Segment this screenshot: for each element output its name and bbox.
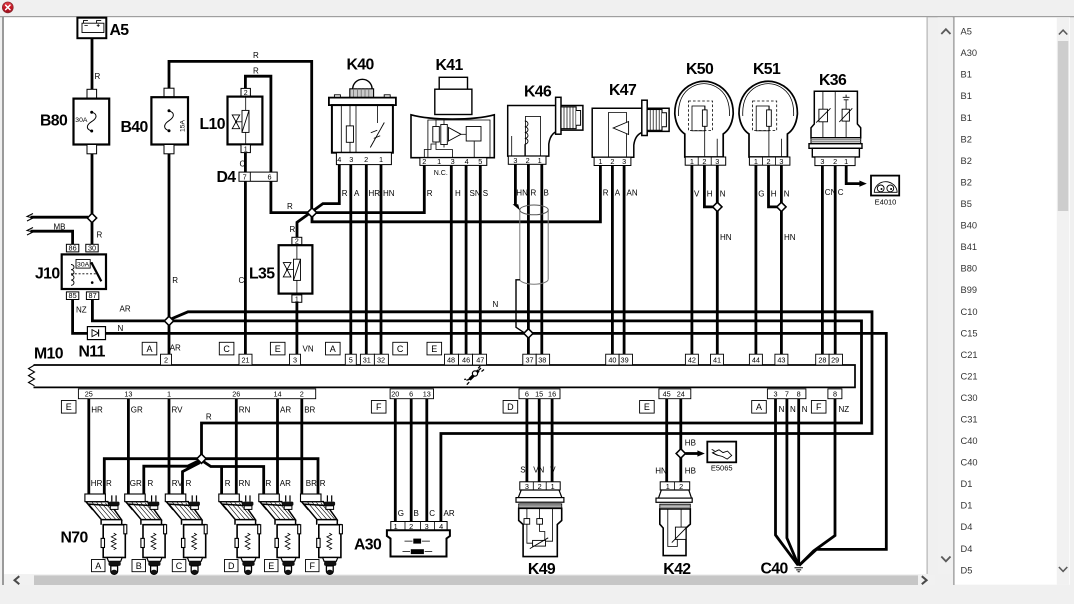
svg-text:3: 3 [293,356,297,365]
svg-text:R: R [225,479,231,488]
svg-text:D4: D4 [961,544,973,554]
wire GR : M10 E13 to injector B [127,399,130,494]
svg-text:E: E [66,402,72,412]
svg-text:B2: B2 [961,177,972,187]
svg-text:B2: B2 [961,156,972,166]
svg-text:4: 4 [465,157,469,166]
wire R : K46 pin2 to M10 pin 37 [527,165,530,355]
junction MB/R [87,213,96,222]
svg-text:48: 48 [447,356,455,365]
junction MB/R redraw [87,213,96,222]
svg-text:B: B [544,189,549,198]
wire S : M10 D6 to K49 pin3 [526,399,529,482]
svg-text:D: D [228,561,235,571]
wire A : K47 pin2 to M10 pin 40 [611,166,614,355]
wire labels above A30 [398,509,455,518]
wire CN : K36 pin3 to M10 pin 28 [821,166,824,355]
horizontal scrollbar thumb [34,575,918,585]
svg-text:2: 2 [526,156,530,165]
svg-text:B1: B1 [961,113,972,123]
svg-text:HN: HN [655,466,667,475]
svg-text:RN: RN [239,479,251,488]
main scrollbar up arrow [941,29,950,34]
svg-text:R: R [206,413,212,422]
svg-text:3: 3 [349,155,353,164]
wire R : A5 to B80 [91,39,94,90]
svg-text:D4: D4 [961,522,973,532]
svg-text:1: 1 [844,157,848,166]
svg-text:1: 1 [598,157,602,166]
svg-text:K49: K49 [528,561,556,578]
svg-text:3: 3 [820,157,824,166]
svg-text:A5: A5 [110,22,130,39]
svg-text:D1: D1 [961,501,973,511]
wire R : B80 down through MB junction to J10 pin 30 [91,154,94,245]
M10 bottom pin group boxes [78,389,842,399]
svg-text:2: 2 [702,157,706,166]
wire H : K50 pin2 to HN junction [704,165,713,207]
svg-text:15: 15 [535,390,543,399]
relay J10 [62,244,106,301]
svg-text:30A: 30A [77,262,90,269]
injector wire labels row [91,479,326,488]
svg-text:5: 5 [349,356,353,365]
svg-text:2: 2 [422,157,426,166]
svg-text:7: 7 [785,390,789,399]
junction K50 HN [713,202,722,211]
svg-text:31: 31 [363,356,371,365]
svg-text:26: 26 [232,390,240,399]
break symbol MB wire [27,214,33,222]
diagram white canvas [4,17,927,574]
svg-text:HR: HR [369,189,381,198]
svg-text:F: F [376,402,382,412]
main scrollbar down arrow [941,557,950,562]
svg-text:13: 13 [124,390,132,399]
lamp K51 [739,81,797,166]
junction diamonds top layer [87,202,786,463]
svg-text:40: 40 [608,356,616,365]
svg-text:3: 3 [513,156,517,165]
svg-text:F: F [309,561,315,571]
svg-text:87: 87 [89,291,97,300]
fuse B80 [74,89,110,154]
svg-text:N: N [493,300,499,309]
wire RN : M10 E26 to injector D [235,399,238,494]
svg-text:AN: AN [627,189,638,198]
svg-text:43: 43 [777,356,785,365]
svg-text:37: 37 [525,356,533,365]
svg-text:A: A [615,189,621,198]
wire N : M10 A3 to ground C40 [776,399,799,565]
junction K50 HN redraw [713,202,722,211]
svg-text:NZ: NZ [839,405,850,414]
svg-text:C: C [429,509,435,518]
wire MB lower to J10 pin 86 [31,231,73,244]
svg-text:RV: RV [172,406,184,415]
junction K42 HB redraw [676,449,685,458]
svg-text:HN: HN [516,189,528,198]
wire labels above K49 [520,465,556,474]
svg-text:E5065: E5065 [711,463,733,472]
injector N70 B [125,494,167,574]
svg-text:C31: C31 [961,415,978,425]
svg-text:K51: K51 [753,61,781,78]
wire R : L10 pin2 rail through D4 pin6 down to R node [245,76,308,212]
junction K51 HN [777,202,786,211]
svg-text:HN: HN [383,189,395,198]
list scrollbar track [1057,17,1070,584]
svg-text:A: A [354,189,360,198]
horizontal scrollbar right arrow [922,576,927,584]
wire AR : J10 pin87 to AR node [92,300,165,321]
wire N/HN : K51 pin3 to M10 pin 43 [780,165,783,354]
injector N70 E [259,494,301,574]
diagram panel left border [2,17,4,585]
M10 top connector letter boxes [142,342,441,355]
wire NZ : J10 pin85 to N11 [73,300,88,334]
ground point C40 [795,568,803,572]
svg-text:MB: MB [54,223,66,232]
svg-text:38: 38 [538,356,546,365]
svg-text:42: 42 [688,356,696,365]
wire G : K51 pin1 to M10 pin 44 [755,165,758,354]
svg-text:R: R [287,202,293,211]
svg-text:D5: D5 [961,565,973,575]
connector E4010 [871,176,899,196]
valve L35 [279,237,313,303]
svg-text:28: 28 [818,356,826,365]
svg-text:CN: CN [825,188,837,197]
svg-text:B: B [414,509,419,518]
wire R : node east rail to injector F [205,459,318,494]
svg-text:6: 6 [409,390,413,399]
svg-text:R: R [253,51,259,60]
svg-text:BR: BR [306,479,317,488]
svg-text:A: A [95,561,101,571]
svg-text:24: 24 [677,390,685,399]
wire C : K36 pin2 to M10 pin 29 [834,166,837,355]
wire R branch to injector D [220,467,223,495]
wire R : node to injector B [144,461,199,494]
svg-text:RV: RV [172,479,184,488]
battery A5 [77,18,106,39]
svg-text:K36: K36 [819,72,847,89]
svg-text:VN: VN [303,345,314,354]
svg-text:29: 29 [831,356,839,365]
svg-text:6: 6 [525,390,529,399]
svg-text:B40: B40 [121,119,149,136]
svg-text:HB: HB [685,466,696,475]
wire VN : M10 D15 to K49 pin2 [538,399,541,482]
arrowhead to E5065 [697,450,704,456]
svg-text:G: G [398,509,404,518]
svg-text:B5: B5 [961,199,972,209]
svg-text:R: R [148,479,154,488]
svg-text:A5: A5 [961,27,972,37]
wire C : M10 F13 to A30 pin3 [425,399,428,522]
svg-text:4: 4 [337,155,341,164]
junction AR node redraw [164,316,173,325]
wire H : K41 pin3 to M10 pin 48 [450,165,453,354]
junction R node [307,208,316,217]
svg-text:R: R [320,479,326,488]
injector letter boxes A-F [92,560,320,572]
svg-text:R: R [290,225,296,234]
svg-text:K42: K42 [663,561,691,578]
svg-text:B1: B1 [961,70,972,80]
svg-text:N: N [790,405,796,414]
svg-text:D4: D4 [217,169,237,186]
wire R : AR node east rail down to injector R bus [173,321,862,455]
svg-text:E: E [268,561,274,571]
svg-text:1: 1 [379,155,383,164]
svg-text:S: S [483,189,488,198]
svg-text:85: 85 [69,291,77,300]
list scrollbar down arrow [1059,567,1067,571]
svg-text:H: H [455,189,461,198]
svg-text:3: 3 [715,157,719,166]
wire SN : K41 pin4 to M10 pin 46 [465,165,468,354]
svg-text:E4010: E4010 [875,197,897,206]
svg-text:3: 3 [622,157,626,166]
svg-text:1: 1 [538,156,542,165]
sensor K42 [656,482,692,556]
svg-text:R: R [266,479,272,488]
wire R : R node southeast rail to K47 pin1 [312,166,600,222]
svg-text:AR: AR [170,344,181,353]
wire R : node to injector C [183,463,200,494]
svg-text:SN: SN [470,189,481,198]
wire MB from left [31,216,89,219]
svg-text:V: V [694,190,700,199]
svg-text:3: 3 [779,157,783,166]
svg-text:N: N [779,405,785,414]
svg-text:2: 2 [766,157,770,166]
injector N70 A [85,494,127,574]
svg-text:C40: C40 [761,561,789,578]
wire H : K51 pin2 to HN junction [769,165,778,207]
svg-text:R: R [427,189,433,198]
top strip border [0,16,1074,17]
svg-text:32: 32 [377,356,385,365]
svg-text:47: 47 [476,356,484,365]
svg-text:K47: K47 [609,82,637,99]
wire labels below M10 E group [91,406,315,415]
wire N/HN : K50 pin3 to M10 pin 41 [716,165,719,354]
svg-text:AR: AR [120,305,131,314]
svg-text:1: 1 [690,157,694,166]
wire VN : L35 pin1 to M10 pin 3 [295,302,298,355]
svg-text:1: 1 [754,157,758,166]
svg-text:3: 3 [451,157,455,166]
M10 top pin boxes [161,354,843,365]
component index list [961,27,978,576]
svg-text:B40: B40 [961,221,978,231]
svg-text:R: R [253,67,259,76]
svg-text:C21: C21 [961,371,978,381]
shield cylinder K46 [520,205,548,284]
svg-text:N: N [802,405,808,414]
wire B : M10 F6 to A30 pin2 [410,399,413,522]
svg-text:D1: D1 [961,479,973,489]
svg-text:25: 25 [85,390,93,399]
svg-text:C40: C40 [961,458,978,468]
svg-text:N: N [720,190,726,199]
svg-text:2: 2 [244,90,248,97]
wire R : R node east to K41 pin2 [316,165,424,212]
wire HR : M10 E25 to injector A [87,399,90,494]
svg-text:VN: VN [533,465,544,474]
wire AR : AR node diagonal to upper rail and down to A30 pin4 [172,312,872,522]
diagnostic connector E5065 [707,442,736,463]
svg-text:45: 45 [663,390,671,399]
valve L10 [228,88,263,153]
wire HN : M10 E45 to K42 pin1 [665,399,668,482]
junction shield N redraw [524,329,533,338]
svg-text:20: 20 [391,390,399,399]
M10 bottom connector letter boxes [61,401,826,414]
svg-text:N: N [784,190,790,199]
diagram panel right border [927,17,928,574]
wire V : K50 pin1 to M10 pin 42 [691,165,694,354]
svg-text:M10: M10 [34,346,64,363]
junction injector R redraw [197,454,206,463]
sensor K36 [809,91,862,166]
svg-text:HR: HR [91,479,103,488]
wire B : K46 pin1 to M10 pin 38 [540,165,543,355]
wire N : M10 A7 to ground C40 [787,399,799,565]
svg-text:BR: BR [304,406,315,415]
svg-text:C: C [239,276,245,285]
svg-text:N70: N70 [61,530,89,547]
svg-text:2: 2 [295,239,299,246]
junction injector R node [197,454,206,463]
svg-text:30A: 30A [75,117,88,124]
break symbol lower MB wire [27,228,33,236]
svg-text:B: B [136,561,142,571]
svg-text:E: E [275,344,281,354]
svg-text:R: R [172,276,178,285]
wire R : B40 bottom to AR node and M10 pin 2 [168,154,171,355]
svg-text:HB: HB [685,438,696,447]
svg-text:C: C [240,160,246,169]
svg-text:21: 21 [241,356,249,365]
wire A : K40 pin3 to M10 pin 5 [349,165,352,355]
svg-text:1: 1 [244,147,248,154]
svg-text:1: 1 [167,390,171,399]
svg-text:H: H [771,190,777,199]
svg-text:C21: C21 [961,350,978,360]
wire HB : M10 E24 to K42 pin2 [679,399,682,482]
injector N70 D [219,494,261,574]
junction HB / E5065 [676,449,685,458]
svg-text:E: E [644,402,650,412]
svg-text:N11: N11 [79,344,106,361]
svg-text:2: 2 [364,155,368,164]
fuse B40 [151,88,188,154]
svg-text:1: 1 [295,296,299,303]
svg-text:2: 2 [610,157,614,166]
svg-text:39: 39 [621,356,629,365]
diode module N11 [87,327,105,340]
wire HR : K40 pin2 to M10 pin 31 [365,165,368,355]
svg-text:R: R [106,479,112,488]
svg-text:B80: B80 [961,264,978,274]
svg-text:GR: GR [131,406,143,415]
svg-text:86: 86 [69,244,77,253]
horn connector K47 [592,100,669,166]
svg-text:H: H [707,190,713,199]
wire R : K40 pin4 diagonal through R node to L35 pin2 [297,165,339,238]
svg-text:AR: AR [280,406,291,415]
svg-text:C30: C30 [961,393,978,403]
svg-text:J10: J10 [35,266,60,283]
svg-text:N: N [118,324,124,333]
wire HN : K40 pin1 to M10 pin 32 [380,165,383,355]
svg-text:7: 7 [243,173,247,182]
svg-text:GR: GR [130,479,142,488]
injector N70 C [165,494,207,574]
svg-text:30: 30 [88,244,96,253]
svg-text:8: 8 [797,390,801,399]
wire AR : M10 E14 to injector E [276,399,279,494]
svg-text:C15: C15 [961,328,978,338]
wire R : B40 top rail to R-node riser [169,61,312,208]
svg-text:C: C [838,188,844,197]
svg-text:R: R [186,479,192,488]
wire G : M10 F20 to A30 pin1 [394,399,397,522]
connector D4 [239,172,277,182]
svg-text:C40: C40 [961,436,978,446]
arrowhead to shield [513,204,520,210]
svg-text:6: 6 [267,173,271,182]
close button red [2,2,13,13]
wire S : K41 pin5 to M10 pin 47 [479,165,482,354]
svg-text:L10: L10 [200,116,226,133]
svg-text:C: C [223,344,230,354]
injector N70 F [301,494,343,574]
svg-text:A30: A30 [354,537,382,554]
svg-text:G: G [758,190,764,199]
svg-text:K40: K40 [347,57,375,74]
svg-text:R: R [97,231,103,240]
svg-text:B2: B2 [961,134,972,144]
svg-text:K41: K41 [436,57,464,74]
svg-text:R: R [342,189,348,198]
wire labels N N N NZ [779,405,850,414]
main vertical scrollbar track [938,17,953,574]
svg-text:V: V [550,465,556,474]
wire AN : K47 pin3 to M10 pin 39 [623,166,626,355]
svg-text:AR: AR [280,479,291,488]
wire to E5065 [685,452,697,455]
svg-text:15A: 15A [180,119,187,132]
horizontal scrollbar track [4,575,935,586]
svg-text:B99: B99 [961,285,978,295]
svg-text:K50: K50 [686,61,714,78]
sensor K49 [516,482,564,557]
junction AR node [164,316,173,325]
svg-text:C: C [397,344,404,354]
svg-text:AR: AR [444,509,455,518]
svg-text:A30: A30 [961,48,978,58]
svg-text:F: F [816,402,822,412]
svg-text:2: 2 [164,356,168,365]
list scrollbar thumb [1058,41,1069,211]
wire NZ : M10 F8 to ground C40 [799,399,835,566]
svg-text:C10: C10 [961,307,978,317]
